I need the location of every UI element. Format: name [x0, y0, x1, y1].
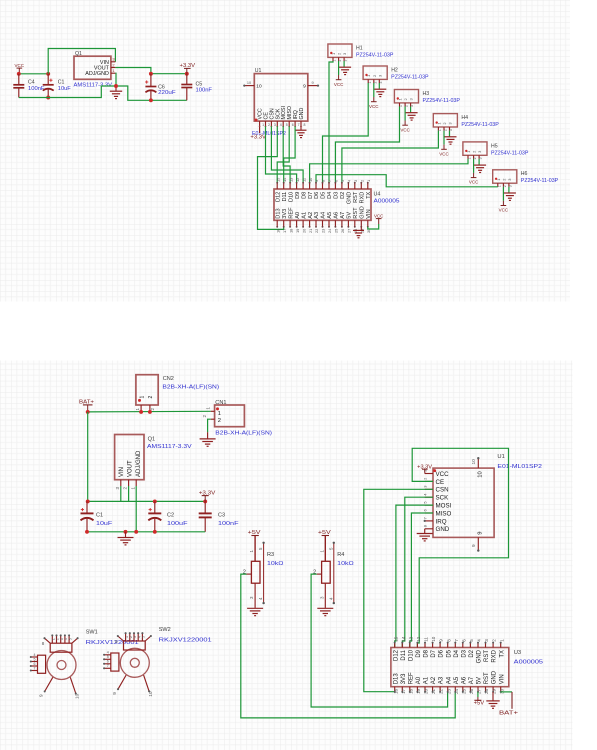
svg-text:R4: R4 — [337, 552, 344, 558]
U4 top pin 1 TX — [367, 183, 369, 189]
ground at H3 — [406, 112, 418, 114]
svg-text:3: 3 — [484, 639, 489, 642]
U4 top pin 10 D7 — [309, 183, 311, 189]
wire U4 VIN to VCC flag — [368, 224, 379, 229]
svg-text:TX: TX — [366, 191, 372, 198]
wire U1 SCK to U3 D11 — [402, 497, 433, 647]
svg-text:E01-ML01SP2: E01-ML01SP2 — [497, 464, 542, 470]
svg-text:H4: H4 — [461, 115, 468, 121]
header H2 PZ254V-11-03P — [363, 66, 387, 79]
header H4 PZ254V-11-03P — [433, 114, 457, 127]
ground at U1 GND pin — [300, 126, 302, 130]
junction at Q1 ground — [114, 84, 118, 88]
regulator Q1 AMS1117-3.3V — [74, 56, 111, 79]
junction at C2 bottom — [153, 530, 157, 534]
svg-text:C4: C4 — [28, 80, 35, 86]
svg-text:D5: D5 — [446, 649, 452, 657]
svg-text:C3: C3 — [218, 512, 225, 518]
svg-text:VCC: VCC — [436, 471, 450, 478]
svg-text:6: 6 — [292, 123, 294, 127]
junction at C1 bottom — [85, 530, 89, 534]
regulator Q1 AMS1117-3.3V (bottom) — [115, 435, 144, 480]
U4 bottom pin 29 GND — [360, 220, 362, 227]
U4 bottom pin 20 A1 — [302, 220, 304, 227]
wire U1 CE to U4 D9 — [266, 126, 297, 183]
wire H5 pin2 to VCC — [473, 159, 475, 173]
net flag VCC at H4 — [443, 145, 445, 150]
svg-text:6: 6 — [334, 180, 339, 182]
junction at CN2 pin1 — [139, 410, 143, 414]
svg-text:RST: RST — [484, 672, 490, 684]
junction at C2 top — [153, 499, 157, 503]
svg-text:26: 26 — [340, 229, 345, 233]
svg-text:RXD: RXD — [492, 649, 498, 662]
U3 bottom pin 28 RST — [485, 687, 487, 692]
svg-text:1: 1 — [262, 123, 264, 127]
junction at C5 top — [185, 72, 189, 76]
U3 bottom pin 29 GND — [492, 687, 494, 692]
junction at ground stub — [124, 530, 128, 534]
svg-text:8: 8 — [321, 180, 326, 182]
U1 pin 1 VCC — [259, 121, 261, 126]
svg-text:1: 1 — [366, 180, 371, 182]
svg-text:9: 9 — [311, 81, 313, 85]
U4 top pin 2 RXD — [360, 183, 362, 189]
svg-text:5: 5 — [286, 123, 288, 127]
U4 bottom pin 27 5V — [347, 220, 349, 227]
svg-text:+3.3V: +3.3V — [250, 134, 266, 140]
wire H4 pin1 signal to U4 — [342, 131, 439, 183]
wire H3 pin1 signal to U4 — [335, 107, 399, 183]
CN1 pin 2 stub — [211, 418, 215, 420]
wire Q1 ADJ down to ground rail — [135, 486, 137, 532]
svg-text:21: 21 — [308, 229, 313, 233]
U3 bottom pin 25 A6 — [462, 687, 464, 692]
U1 pin 9 stub (right) — [308, 85, 318, 87]
wire VIN from VCC over the top — [48, 49, 115, 74]
svg-text:9: 9 — [112, 692, 118, 695]
U1 pin 8 GND — [300, 121, 302, 126]
U1 pin 10 stub (left) — [244, 85, 254, 87]
svg-text:PZ254V-11-03P: PZ254V-11-03P — [521, 178, 559, 184]
svg-text:MISO: MISO — [436, 510, 452, 517]
wire U1 CSN to U4 D8 — [271, 126, 303, 183]
ground at R3 — [247, 607, 263, 609]
header H6 PZ254V-11-03P — [493, 170, 517, 183]
svg-text:A000005: A000005 — [374, 199, 400, 205]
svg-text:D9: D9 — [416, 649, 422, 657]
net flag VCC at H6 — [502, 201, 504, 206]
svg-text:7: 7 — [327, 180, 332, 182]
svg-text:A2: A2 — [308, 212, 314, 219]
U3 top pin 7 D4 — [454, 643, 456, 648]
R3 pin 2 stub — [247, 573, 252, 575]
svg-text:10: 10 — [148, 691, 154, 697]
svg-text:10uF: 10uF — [58, 86, 71, 92]
svg-text:15: 15 — [275, 178, 280, 182]
U4 bottom pin 26 A7 — [341, 220, 343, 227]
svg-text:VIN: VIN — [366, 209, 372, 218]
R3 wiper line — [263, 543, 265, 603]
svg-text:PZ254V-11-03P: PZ254V-11-03P — [423, 98, 461, 104]
svg-text:5V: 5V — [347, 212, 353, 219]
svg-text:11: 11 — [301, 178, 306, 182]
svg-text:+5V: +5V — [474, 701, 485, 707]
U1 pin 2 CE — [265, 121, 267, 126]
svg-text:GND: GND — [299, 108, 305, 120]
U4 bottom pin 24 A5 — [328, 220, 330, 227]
svg-text:4: 4 — [34, 653, 36, 657]
svg-text:TX: TX — [499, 650, 505, 658]
Q1 pin 3 VIN stub — [111, 61, 116, 63]
svg-text:Q1: Q1 — [148, 436, 155, 442]
svg-text:A000005: A000005 — [514, 660, 543, 666]
capacitor C4 — [18, 74, 20, 84]
U1 pin 4 SCK — [425, 496, 433, 498]
U3 top pin 9 D6 — [439, 643, 441, 648]
U4 bottom pin 16 D13 — [276, 220, 278, 227]
capacitor C1 (polarized) — [47, 74, 49, 84]
svg-text:5: 5 — [142, 636, 146, 638]
U4 top pin 7 D4 — [328, 183, 330, 189]
U1 pin 6 MISO — [425, 512, 433, 514]
U3 bottom pin 23 A4 — [447, 687, 449, 692]
U3 top pin 10 D7 — [432, 643, 434, 648]
wire R4 pin2 to U3 — [311, 574, 448, 707]
U3 bottom pin 22 A3 — [439, 687, 441, 692]
svg-text:D11: D11 — [282, 192, 288, 202]
svg-text:10: 10 — [471, 459, 477, 465]
svg-text:D8: D8 — [301, 192, 307, 199]
svg-text:A5: A5 — [454, 676, 460, 684]
svg-text:D6: D6 — [439, 649, 445, 657]
wire ADJ to ground — [114, 73, 117, 86]
svg-text:A4: A4 — [446, 676, 452, 684]
svg-text:CN2: CN2 — [163, 376, 174, 382]
U4 bottom pin 23 A4 — [322, 220, 324, 227]
svg-text:4: 4 — [107, 651, 109, 655]
svg-text:D13: D13 — [393, 673, 399, 685]
junction at C4 top — [17, 72, 21, 76]
Q1 pin 2 VOUT stub — [128, 480, 130, 486]
svg-text:C1: C1 — [58, 80, 65, 86]
ground at H2 — [374, 88, 386, 90]
wire CN1 pin2 to ground — [208, 419, 211, 432]
svg-text:11: 11 — [424, 637, 429, 642]
U3 top pin 2 RXD — [492, 643, 494, 648]
svg-text:A0: A0 — [295, 212, 301, 219]
U1 pin 3 CSN — [425, 488, 433, 490]
svg-text:D8: D8 — [424, 649, 430, 657]
U3 top pin 6 D3 — [462, 643, 464, 648]
wire U1 CE loop to U3 D9 — [412, 448, 508, 647]
svg-text:GND: GND — [492, 670, 498, 684]
svg-text:U1: U1 — [255, 68, 262, 74]
Q1 pin 1 ADJ stub — [135, 480, 137, 486]
junction at C6 top — [149, 72, 153, 76]
wire U1 CSN to U3 D13 — [364, 489, 433, 691]
svg-text:10: 10 — [75, 693, 81, 699]
U3 top pin 14 D11 — [401, 643, 403, 648]
svg-text:GND: GND — [360, 206, 366, 218]
svg-text:RST: RST — [353, 191, 359, 203]
U4 bottom pin 28 RST — [354, 220, 356, 227]
ground at U3 GND pin — [492, 692, 494, 701]
header H3 PZ254V-11-03P — [394, 90, 418, 103]
svg-text:16: 16 — [275, 229, 280, 233]
ground at H5 — [474, 164, 486, 166]
R4 pin 2 stub — [317, 573, 322, 575]
ground at H4 — [445, 136, 457, 138]
U3 bottom pin 24 A5 — [454, 687, 456, 692]
U4 bottom pin 17 3V3 — [283, 220, 285, 227]
net flag VCC at H1 — [338, 75, 340, 80]
svg-text:MOSI: MOSI — [436, 503, 452, 510]
svg-text:PZ254V-11-03P: PZ254V-11-03P — [461, 122, 499, 128]
U4 bottom pin 22 A3 — [315, 220, 317, 227]
capacitor C3 100nF — [204, 501, 206, 512]
svg-text:10: 10 — [247, 81, 251, 85]
wire H1 pin1 signal to U4 — [329, 61, 333, 183]
svg-text:A6: A6 — [334, 212, 340, 219]
svg-text:+3.3V: +3.3V — [199, 490, 216, 496]
U4 top pin 4 GND — [347, 183, 349, 189]
connector CN1 B2B-XH-A(LF)(SN) — [215, 405, 245, 427]
svg-text:H2: H2 — [391, 67, 398, 73]
svg-text:U4: U4 — [374, 192, 381, 198]
svg-text:3: 3 — [353, 180, 358, 182]
svg-text:2: 2 — [360, 180, 365, 182]
svg-text:7: 7 — [298, 123, 300, 127]
svg-text:VCC: VCC — [469, 180, 479, 186]
U4 bottom pin 30 VIN — [367, 220, 369, 227]
U1 pin 1 VCC — [425, 473, 433, 475]
svg-text:H5: H5 — [491, 143, 498, 149]
Q1 pin 2 VOUT stub — [111, 67, 116, 69]
svg-text:D10: D10 — [288, 192, 294, 202]
U3 bottom pin 17 3V3 — [401, 687, 403, 692]
Q1 pin 1 ADJ stub — [111, 72, 116, 74]
wire H3 pin3 to ground — [410, 107, 412, 113]
ground at R4 — [317, 607, 333, 609]
svg-text:VIN: VIN — [119, 467, 125, 477]
wire H1 pin3 to ground — [343, 61, 345, 67]
junction at C1 top — [86, 499, 90, 503]
net flag +5V at U3 — [477, 697, 479, 700]
svg-text:A7: A7 — [469, 676, 475, 684]
net flag +3.3V (bottom) — [204, 496, 206, 502]
svg-text:IRQ: IRQ — [436, 518, 447, 525]
top schematic grid background — [0, 0, 570, 302]
junction at CN2 pin2 — [148, 410, 152, 414]
wire BAT+ down to VIN rail — [87, 412, 89, 502]
wire VCC rail — [19, 73, 48, 75]
svg-text:AMS1117-3.3V: AMS1117-3.3V — [147, 444, 192, 450]
junction at C1 bottom — [46, 96, 50, 100]
svg-text:CE: CE — [436, 479, 445, 486]
U3 top pin 13 D10 — [409, 643, 411, 648]
wire H1 pin2 to VCC — [338, 61, 340, 75]
svg-text:C2: C2 — [167, 512, 174, 518]
net flag BAT+ at U3 — [511, 692, 513, 709]
svg-text:A3: A3 — [439, 676, 445, 684]
svg-text:6: 6 — [34, 662, 36, 666]
U4 top pin 12 D9 — [296, 183, 298, 189]
svg-text:1: 1 — [139, 396, 145, 399]
wire R3 pin2 to U3 — [241, 574, 455, 718]
svg-text:100uF: 100uF — [167, 521, 188, 527]
svg-text:10kΩ: 10kΩ — [267, 561, 284, 567]
svg-text:D7: D7 — [308, 192, 314, 199]
mcu U3 A000005 (Arduino Nano) — [391, 648, 509, 687]
svg-text:2: 2 — [218, 418, 221, 424]
svg-text:5: 5 — [340, 180, 345, 182]
U3 bottom pin 27 5V — [477, 687, 479, 692]
U4 top pin 3 RST — [354, 183, 356, 189]
U3 top pin 15 D12 — [394, 643, 396, 648]
svg-text:3: 3 — [274, 123, 276, 127]
wire H5 pin3 to ground — [478, 159, 480, 165]
svg-text:19: 19 — [295, 229, 300, 233]
svg-text:7: 7 — [454, 639, 459, 642]
svg-text:VCC: VCC — [499, 208, 509, 214]
U3 top pin 11 D8 — [424, 643, 426, 648]
svg-text:9: 9 — [471, 544, 477, 547]
svg-text:D12: D12 — [275, 192, 281, 202]
svg-text:18: 18 — [288, 229, 293, 233]
capacitor C2 100uF (polarized) — [154, 501, 156, 512]
svg-text:22: 22 — [314, 229, 319, 233]
wire H2 pin1 signal to U4 — [323, 83, 369, 183]
svg-text:PZ254V-11-03P: PZ254V-11-03P — [491, 150, 529, 156]
U3 bottom pin 20 A1 — [424, 687, 426, 692]
U4 top pin 6 D3 — [334, 183, 336, 189]
ground at U4 GND pin — [360, 227, 362, 230]
U1 pin 10 stub (top right) — [477, 458, 479, 468]
svg-text:2: 2 — [148, 396, 154, 399]
potentiometer R4 10k — [324, 536, 326, 562]
svg-text:1: 1 — [218, 411, 221, 417]
svg-text:D12: D12 — [393, 649, 399, 661]
svg-text:VCC: VCC — [369, 104, 379, 110]
svg-text:A2: A2 — [431, 676, 437, 684]
ground at H1 — [339, 66, 351, 68]
wire H6 pin3 to ground — [508, 187, 510, 193]
U4 top pin 11 D8 — [302, 183, 304, 189]
svg-text:23: 23 — [321, 229, 326, 233]
U3 top pin 5 D2 — [469, 643, 471, 648]
U1 pin1 marker — [255, 119, 258, 122]
svg-text:VIN: VIN — [499, 674, 505, 684]
junction at ADJ — [134, 530, 138, 534]
svg-text:2: 2 — [268, 123, 270, 127]
svg-text:Q1: Q1 — [75, 51, 82, 57]
svg-text:D9: D9 — [295, 192, 301, 199]
svg-text:SW2: SW2 — [159, 627, 171, 633]
svg-text:5: 5 — [469, 639, 474, 642]
svg-text:H1: H1 — [356, 45, 363, 51]
svg-text:14: 14 — [401, 636, 406, 642]
svg-text:9: 9 — [478, 532, 484, 535]
svg-text:7: 7 — [34, 666, 36, 670]
header H5 PZ254V-11-03P — [463, 142, 487, 155]
mcu U4 A000005 (Arduino Nano) — [274, 189, 371, 220]
wire left ground rail — [19, 86, 116, 98]
svg-text:D6: D6 — [314, 192, 320, 199]
U4 bottom pin 19 A0 — [296, 220, 298, 227]
svg-text:12: 12 — [416, 636, 421, 642]
U1 pin 4 SCK — [276, 121, 278, 126]
U4 top pin 9 D6 — [315, 183, 317, 189]
svg-text:10uF: 10uF — [96, 521, 113, 527]
U4 top pin 15 D12 — [276, 183, 278, 189]
svg-text:10: 10 — [256, 84, 262, 90]
ground at U1 GND pin — [424, 529, 426, 533]
svg-text:A4: A4 — [321, 212, 327, 219]
svg-text:A1: A1 — [424, 676, 430, 684]
potentiometer R3 10k — [254, 536, 256, 562]
svg-text:10: 10 — [431, 636, 436, 642]
module U1 E01-ML01SP2 (bottom) — [433, 468, 494, 537]
ground at CN1 — [207, 432, 209, 438]
svg-text:25: 25 — [334, 229, 339, 233]
svg-text:2: 2 — [492, 639, 497, 642]
U1 pin 7 IRQ — [425, 520, 433, 522]
svg-text:13: 13 — [408, 636, 413, 642]
svg-text:D4: D4 — [327, 192, 333, 199]
module U1 E01-ML01SP2 (top) — [254, 74, 307, 122]
wire +3.3V rail over capacitors — [88, 500, 206, 502]
svg-text:4: 4 — [280, 123, 282, 127]
svg-text:RXD: RXD — [360, 192, 366, 204]
svg-text:9: 9 — [303, 84, 306, 90]
svg-text:13: 13 — [288, 178, 293, 182]
wire U1 MISO to U3 D10 — [410, 513, 433, 648]
junction at C3 top — [203, 499, 207, 503]
CN2 pin 1 stub — [140, 405, 142, 412]
U1 pin 2 CE — [425, 480, 433, 482]
wire H4 pin2 to VCC — [443, 131, 445, 145]
svg-text:D4: D4 — [454, 649, 460, 657]
wire right ground rail — [116, 86, 187, 100]
svg-text:H3: H3 — [423, 91, 430, 97]
svg-text:VCC: VCC — [439, 151, 449, 157]
net flag VCC at H5 — [473, 173, 475, 178]
wire H5 pin1 signal to U4 — [310, 159, 468, 183]
svg-text:B2B-XH-A(LF)(SN): B2B-XH-A(LF)(SN) — [215, 430, 272, 436]
U1 pin 5 MOSI — [425, 504, 433, 506]
svg-text:D10: D10 — [408, 649, 414, 661]
CN2 pin 2 stub — [149, 405, 151, 412]
U3 top pin 8 D5 — [447, 643, 449, 648]
U4 bottom pin 18 REF — [289, 220, 291, 227]
U3 bottom pin 19 A0 — [416, 687, 418, 692]
svg-text:GND: GND — [347, 192, 353, 204]
U4 top pin 8 D5 — [322, 183, 324, 189]
svg-text:7: 7 — [107, 664, 109, 668]
svg-text:A5: A5 — [327, 212, 333, 219]
svg-text:5V: 5V — [477, 677, 483, 684]
svg-text:5: 5 — [68, 638, 72, 640]
net flag VCC at H3 — [404, 121, 406, 126]
svg-text:9: 9 — [39, 694, 45, 697]
ground at H6 — [504, 192, 516, 194]
wire ground rail under capacitors — [87, 531, 205, 533]
svg-text:GND: GND — [477, 649, 483, 663]
wire VOUT rail to +3.3V — [115, 68, 186, 74]
U1 pin 7 IRQ — [294, 121, 296, 126]
U1 pin 5 MOSI — [282, 121, 284, 126]
